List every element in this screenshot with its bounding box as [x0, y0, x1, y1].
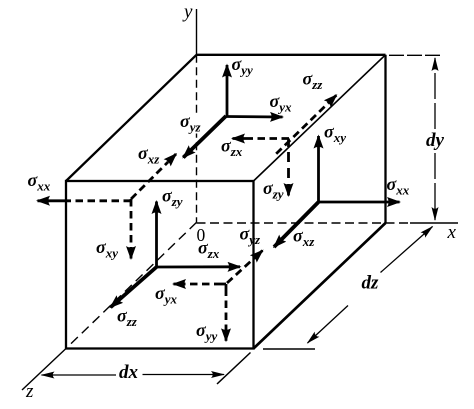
svg-text:dy: dy: [426, 130, 445, 151]
svg-text:σxz: σxz: [138, 143, 160, 167]
svg-text:σzy: σzy: [263, 178, 284, 202]
svg-text:dz: dz: [362, 273, 380, 294]
svg-text:0: 0: [197, 225, 206, 245]
svg-text:y: y: [182, 2, 193, 23]
svg-text:σyz: σyz: [240, 224, 261, 248]
svg-text:σyz: σyz: [180, 111, 201, 135]
svg-text:σxy: σxy: [324, 122, 346, 146]
svg-text:σyx: σyx: [155, 283, 177, 307]
svg-text:σzz: σzz: [303, 69, 324, 93]
svg-text:σyy: σyy: [196, 320, 217, 344]
svg-text:σxx: σxx: [387, 174, 410, 198]
svg-text:x: x: [447, 222, 457, 243]
svg-text:σyx: σyx: [270, 91, 292, 115]
svg-text:σxz: σxz: [293, 226, 315, 250]
svg-text:z: z: [25, 381, 34, 402]
svg-text:σzy: σzy: [162, 186, 183, 210]
svg-text:σxx: σxx: [28, 170, 51, 194]
svg-text:σxy: σxy: [96, 237, 118, 261]
svg-text:dx: dx: [119, 362, 139, 383]
svg-text:σzz: σzz: [117, 306, 138, 330]
svg-text:σyy: σyy: [232, 54, 253, 78]
